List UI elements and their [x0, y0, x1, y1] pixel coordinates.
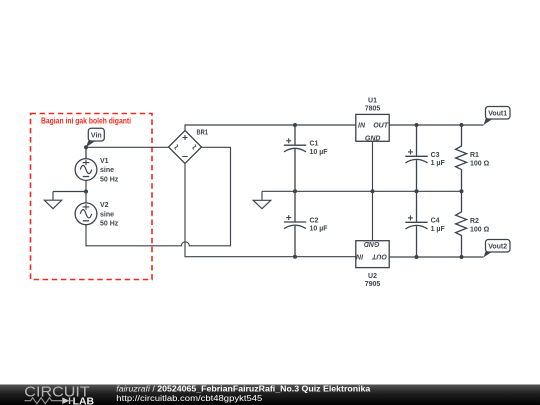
svg-text:sine: sine	[100, 212, 114, 219]
svg-text:10 µF: 10 µF	[310, 226, 329, 233]
wire: U1 GND stub	[372, 141, 374, 191]
node: V1- / V2+ / ground	[84, 190, 88, 194]
voltage regulator U1 (7805)	[356, 97, 389, 142]
node: R1/R2 mid	[460, 189, 464, 193]
node: C3 top	[415, 123, 419, 127]
svg-text:OUT: OUT	[373, 122, 389, 129]
wire: U1 OUT rail to Vout1	[390, 124, 484, 126]
node: U1/U2 GND on mid rail	[371, 189, 375, 193]
svg-text:7805: 7805	[365, 105, 381, 112]
capacitor C3 (1 uF, polarized)	[405, 125, 445, 191]
voltage source V1 (sine 50 Hz)	[75, 147, 119, 183]
capacitor C1 (10 uF, polarized)	[284, 125, 328, 191]
svg-text:GND: GND	[364, 240, 380, 247]
net flag Vout2	[484, 240, 511, 258]
svg-text:U2: U2	[368, 273, 377, 280]
annotation box "Bagian ini gak boleh diganti"	[31, 114, 153, 280]
node: C1 top on +rail	[293, 123, 297, 127]
svg-text:C2: C2	[310, 217, 319, 224]
svg-text:1 µF: 1 µF	[431, 160, 446, 167]
svg-text:Vin: Vin	[91, 132, 102, 139]
resistor R1 (100 Ohm)	[456, 125, 490, 191]
capacitor C4 (1 uF, polarized)	[405, 191, 445, 257]
wire: Vin node to BR1 left terminal	[86, 146, 169, 148]
wire: node to ground stub	[53, 191, 86, 193]
voltage source V2 (sine 50 Hz)	[75, 202, 119, 228]
voltage regulator U2 (7905, flipped)	[355, 240, 389, 288]
net flag Vin	[86, 128, 104, 147]
wire: BR1 - terminal down and right to U2 IN	[185, 164, 356, 257]
capacitor C2 (10 uF, polarized)	[284, 191, 328, 256]
wire: V2 bottom to BR1 right terminal (with hop over BR1 negative wire)	[86, 147, 231, 246]
svg-text:C3: C3	[431, 152, 440, 159]
svg-text:7905: 7905	[365, 281, 381, 288]
wire: U2 GND stub	[372, 191, 374, 240]
svg-text:V2: V2	[100, 202, 109, 209]
svg-text:R2: R2	[470, 218, 479, 225]
svg-text:Vout2: Vout2	[488, 244, 507, 251]
wire: BR1 + terminal to top rail / U1 IN	[185, 125, 356, 131]
svg-text:50 Hz: 50 Hz	[100, 221, 119, 228]
svg-text:V1: V1	[100, 158, 109, 165]
node: C4 bottom	[415, 255, 419, 259]
svg-text:R1: R1	[470, 152, 479, 159]
svg-text:1 µF: 1 µF	[431, 226, 446, 233]
logo wire-resistor-diode glyph	[25, 397, 74, 404]
svg-text:Bagian ini gak boleh diganti: Bagian ini gak boleh diganti	[41, 115, 131, 125]
node: R1 top	[460, 123, 464, 127]
svg-text:100 Ω: 100 Ω	[470, 226, 490, 233]
svg-text:OUT: OUT	[372, 252, 388, 259]
svg-text:U1: U1	[368, 97, 377, 104]
svg-text:fairuzrafi / 20524065_FebrianF: fairuzrafi / 20524065_FebrianFairuzRafi_…	[116, 385, 371, 394]
svg-text:10 µF: 10 µF	[310, 149, 329, 156]
wire: V1 bottom / V2 top node	[85, 180, 87, 203]
ground (left)	[44, 192, 61, 209]
bridge rectifier BR1	[169, 130, 209, 164]
svg-text:50 Hz: 50 Hz	[100, 176, 119, 183]
node: Vin / V1+	[84, 145, 88, 149]
svg-text:BR1: BR1	[197, 130, 209, 137]
wire: U2 OUT rail to Vout2	[390, 256, 484, 258]
junction dots	[84, 123, 464, 259]
svg-text:GND: GND	[365, 135, 381, 142]
svg-text:C4: C4	[431, 218, 440, 225]
node: R2 bottom	[460, 255, 464, 259]
svg-text:sine: sine	[100, 167, 114, 174]
footer bar	[0, 385, 540, 405]
svg-text:100 Ω: 100 Ω	[470, 160, 490, 167]
net flag Vout1	[484, 107, 511, 126]
svg-text:IN: IN	[355, 252, 363, 259]
svg-text:C1: C1	[310, 141, 319, 148]
resistor R2 (100 Ohm)	[456, 191, 490, 257]
node: C1/C2/ground mid rail	[293, 189, 297, 193]
svg-text:LAB: LAB	[73, 396, 94, 405]
svg-text:Vout1: Vout1	[488, 111, 507, 118]
svg-text:IN: IN	[358, 122, 366, 129]
wire: middle ground rail	[262, 190, 462, 192]
ground (middle)	[253, 191, 271, 208]
node: C2 bottom on -rail	[293, 255, 297, 259]
node: C3/C4 mid	[415, 189, 419, 193]
svg-text:http://circuitlab.com/cbt48gpy: http://circuitlab.com/cbt48gpykt545	[116, 394, 263, 403]
